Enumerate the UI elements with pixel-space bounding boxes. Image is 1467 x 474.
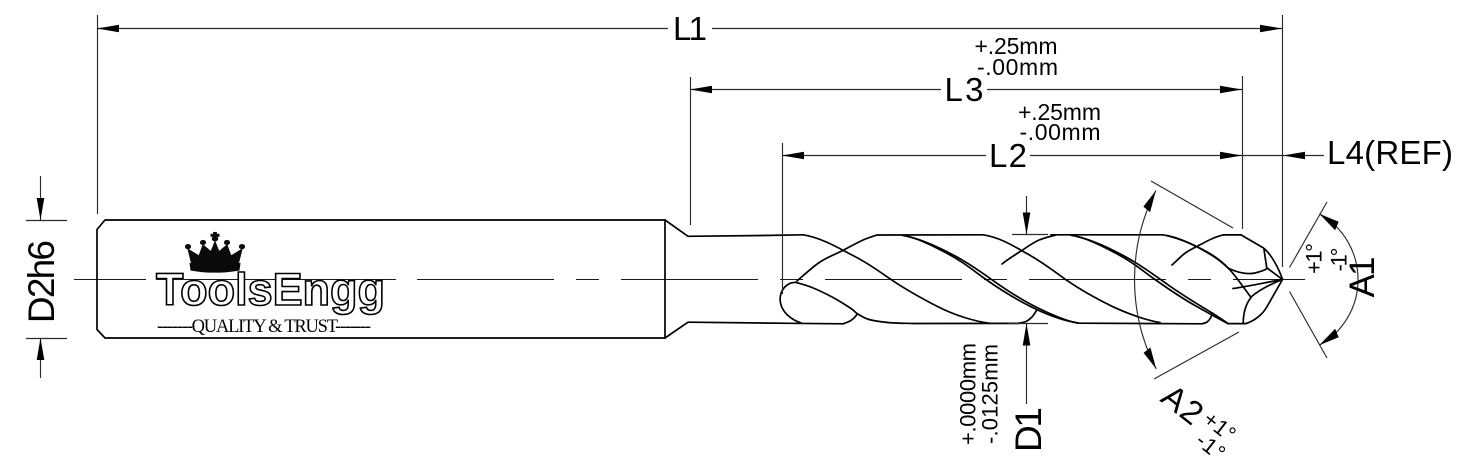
L2 right arrow bbox=[1220, 152, 1242, 160]
A2 arc bbox=[1135, 191, 1157, 369]
L3 dim line bbox=[690, 89, 1242, 91]
L1 right arrow bbox=[1260, 25, 1282, 33]
svg-text:D2h6: D2h6 bbox=[21, 240, 62, 323]
D1 dim line bottom bbox=[1026, 324, 1028, 405]
L1 ext line left bbox=[97, 15, 99, 214]
L2 ext line left bbox=[782, 143, 784, 294]
D1 tick bottom bbox=[1008, 323, 1048, 325]
L3 right arrow bbox=[1220, 86, 1242, 94]
L2 left arrow bbox=[782, 152, 804, 160]
D1 dim line top bbox=[1026, 196, 1028, 234]
drill object lines bbox=[97, 220, 1283, 338]
point facet vertical edge bbox=[1264, 250, 1267, 269]
L3 ext line left bbox=[690, 77, 692, 225]
A2 arc arrow lower bbox=[1144, 348, 1157, 369]
margin double line 2a bbox=[1071, 235, 1228, 323]
svg-text:L4(REF): L4(REF) bbox=[1327, 134, 1453, 171]
svg-text:-.0125mm: -.0125mm bbox=[977, 344, 1002, 444]
logo crown bbox=[185, 232, 244, 272]
crest curve 1 bbox=[797, 235, 877, 281]
margin double line 1b bbox=[902, 235, 1078, 323]
svg-text:D1: D1 bbox=[1008, 407, 1049, 452]
margin double line 3a into point bbox=[1163, 235, 1228, 268]
flute helix edge S2 bbox=[983, 235, 1160, 323]
D2h6 tick top bbox=[26, 220, 67, 222]
svg-text:-.00mm: -.00mm bbox=[1020, 119, 1101, 145]
L3 left arrow bbox=[690, 86, 712, 94]
L2-L3 ext line right bbox=[1242, 76, 1244, 229]
D2h6 bottom arrow bbox=[37, 338, 45, 360]
point top outline bbox=[1241, 235, 1283, 280]
A1 line upper bbox=[1290, 202, 1328, 268]
crest curve 2 bbox=[1002, 235, 1056, 264]
bottom bump arc 1 bbox=[843, 314, 858, 324]
flute run-out blob left arc bbox=[780, 282, 801, 323]
point lower lip line bbox=[1233, 280, 1283, 289]
L4 arrow bbox=[1283, 152, 1305, 160]
flute helix edge S1 bbox=[803, 235, 990, 323]
L4 dim line bbox=[1242, 155, 1324, 157]
centerline bbox=[74, 279, 1305, 281]
L1 left arrow bbox=[97, 25, 119, 33]
D1 tick top bbox=[1012, 234, 1048, 236]
svg-text:+1°: +1° bbox=[1302, 243, 1327, 274]
D1 top arrow bbox=[1023, 213, 1031, 235]
margin double line 3b into point bbox=[1167, 235, 1251, 297]
D2h6 top arrow bbox=[37, 198, 45, 220]
logo ToolsEngg text bbox=[156, 264, 384, 315]
shank-neck chamfer top bbox=[665, 220, 688, 236]
D2h6 dim line bottom bbox=[40, 338, 42, 378]
point chisel line bbox=[1251, 280, 1283, 298]
flute bottom edge segments bbox=[913, 322, 1018, 324]
point lip line bbox=[1268, 268, 1283, 279]
crest curve 3 bbox=[1172, 235, 1223, 265]
margin double line 2b bbox=[1071, 235, 1228, 323]
L2 dim line bbox=[782, 155, 1242, 157]
A1 line lower bbox=[1290, 292, 1328, 359]
bottom bump arc 3 bbox=[1202, 313, 1213, 324]
svg-text:-.00mm: -.00mm bbox=[977, 54, 1058, 80]
svg-text:ToolsEngg: ToolsEngg bbox=[156, 264, 384, 315]
A1 arc arrow upper bbox=[1319, 214, 1338, 230]
point lip scoop bbox=[1228, 268, 1268, 274]
L1 dim line bbox=[97, 28, 1282, 30]
A2 line lower bbox=[1154, 332, 1239, 379]
svg-text:L1: L1 bbox=[673, 10, 707, 47]
shank outline bbox=[97, 220, 665, 338]
A1 arc bbox=[1319, 214, 1358, 345]
bottom bump arc 2 bbox=[1018, 311, 1037, 324]
dimension thin lines bbox=[26, 15, 1358, 404]
neck and flute top edge segments bbox=[688, 235, 803, 237]
L1-L4 ext line right bbox=[1282, 15, 1284, 267]
shank-neck chamfer bottom bbox=[665, 322, 688, 338]
svg-text:-------QUALITY & TRUST-------: -------QUALITY & TRUST------- bbox=[157, 317, 371, 337]
arrowheads bbox=[37, 25, 1339, 369]
D2h6 dim line top bbox=[40, 176, 42, 220]
neck bottom edge bbox=[688, 322, 843, 324]
A2 line upper bbox=[1151, 181, 1233, 228]
point bottom outline bbox=[1246, 280, 1283, 324]
A1 arc arrow lower bbox=[1319, 329, 1338, 345]
point flank arc bbox=[1243, 298, 1251, 324]
svg-text:-1°: -1° bbox=[1327, 248, 1352, 272]
margin double line 1a bbox=[902, 235, 1078, 323]
A2 arc arrow upper bbox=[1143, 191, 1156, 213]
flute run-out top curve bbox=[796, 282, 914, 323]
D1 bottom arrow bbox=[1023, 324, 1031, 346]
D2h6 tick bottom bbox=[26, 338, 67, 340]
